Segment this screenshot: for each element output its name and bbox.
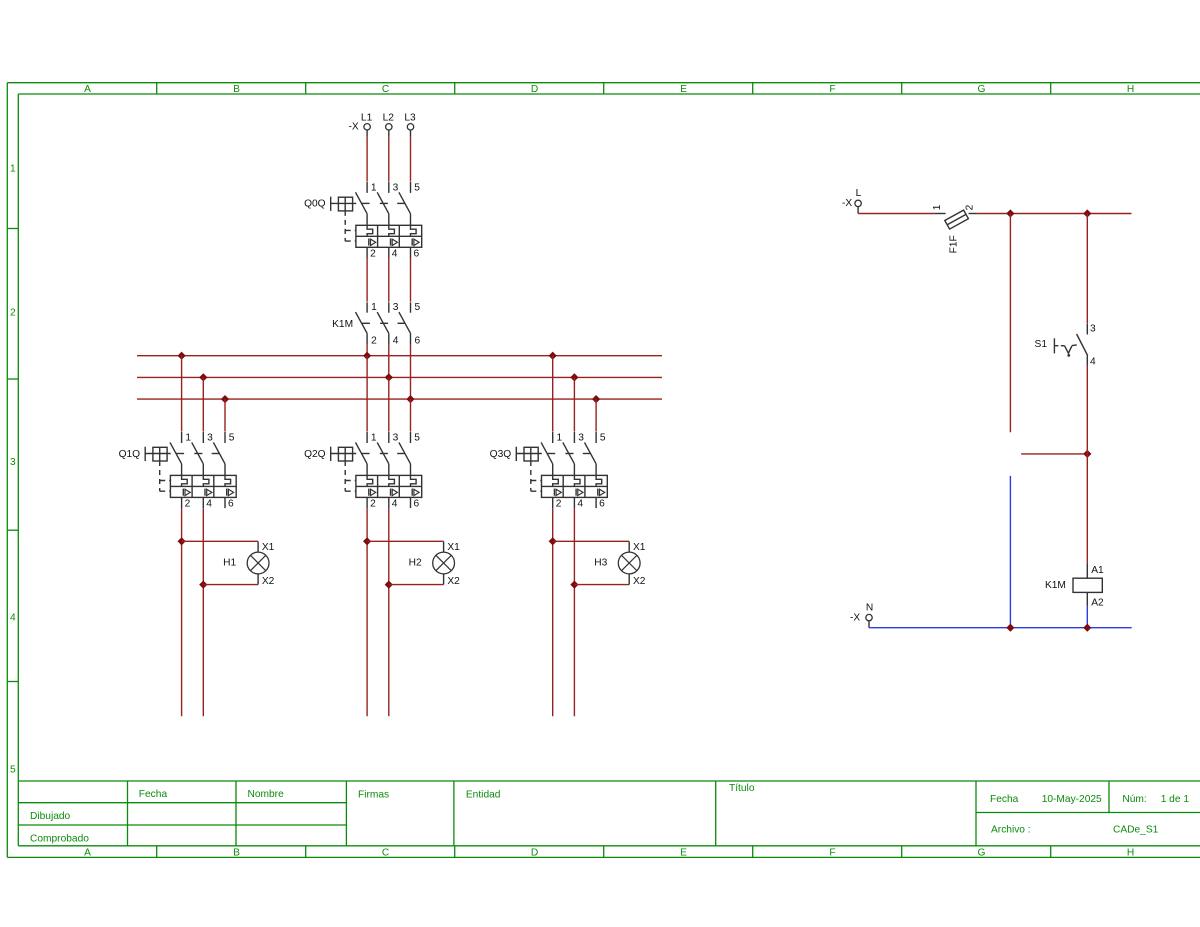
svg-text:1: 1	[371, 302, 377, 313]
svg-text:2: 2	[371, 336, 377, 347]
svg-text:4: 4	[392, 249, 398, 260]
switch S1	[1035, 324, 1096, 368]
svg-text:H: H	[1127, 84, 1134, 95]
svg-text:X2: X2	[633, 576, 646, 587]
wire L3 to Q0Q	[410, 137, 412, 182]
wire bus L2 to Q3Q pole2	[573, 377, 575, 431]
svg-text:3: 3	[393, 433, 399, 444]
wire Q1Q pole2 down	[202, 508, 204, 716]
wire Q2Q pole2 down	[388, 508, 390, 716]
bus L3	[137, 398, 662, 400]
junction lamp H1 return	[199, 581, 207, 589]
fuse F1F	[932, 204, 978, 253]
svg-text:4: 4	[393, 336, 399, 347]
wire Q0Q pole3 to K1M	[410, 258, 412, 302]
svg-text:-X: -X	[349, 122, 359, 133]
wire bus L1 to Q2Q pole1	[366, 356, 368, 432]
terminal -X N	[850, 603, 873, 628]
svg-text:5: 5	[600, 433, 606, 444]
zone column dividers bottom	[157, 846, 1051, 858]
wire S1 to K1M coil	[1086, 366, 1088, 564]
svg-text:Entidad: Entidad	[466, 790, 501, 801]
svg-text:Dibujado: Dibujado	[30, 811, 71, 822]
zone column letters bottom	[84, 847, 1134, 858]
junction branch 2 pole 2 on bus	[385, 373, 393, 381]
svg-text:C: C	[382, 84, 389, 95]
wire K1M pole1 to bus L1	[366, 345, 368, 356]
wire Q3Q pole1 down	[552, 508, 554, 716]
wire bus L3 to Q2Q pole3	[410, 399, 412, 431]
wire bus L1 to Q1Q pole1	[181, 356, 183, 432]
svg-text:1: 1	[557, 433, 563, 444]
svg-text:L1: L1	[361, 113, 373, 124]
wire K1M pole2 to bus L2	[388, 345, 390, 378]
terminal -X L (control)	[842, 188, 862, 213]
junction N node B	[1083, 624, 1091, 632]
svg-text:3: 3	[578, 433, 584, 444]
svg-text:1: 1	[932, 204, 943, 210]
svg-text:Nombre: Nombre	[248, 789, 285, 800]
motor circuit breaker Q0Q	[304, 182, 422, 260]
svg-text:Archivo :: Archivo :	[991, 825, 1031, 836]
svg-text:Q1Q: Q1Q	[119, 449, 141, 460]
svg-text:D: D	[531, 847, 538, 858]
svg-text:1: 1	[185, 433, 191, 444]
terminal strip -X L1 L2 L3	[349, 113, 416, 137]
svg-text:3: 3	[393, 302, 399, 313]
svg-text:5: 5	[10, 765, 16, 776]
svg-text:A1: A1	[1091, 565, 1104, 576]
svg-text:4: 4	[1090, 357, 1096, 368]
indicator lamp H2	[409, 542, 461, 587]
sheet inner border	[18, 94, 1200, 846]
svg-text:1 de 1: 1 de 1	[1161, 794, 1190, 805]
svg-text:A: A	[84, 84, 91, 95]
zone column dividers top	[157, 83, 1051, 94]
svg-text:E: E	[680, 84, 687, 95]
svg-text:2: 2	[185, 499, 191, 510]
svg-text:6: 6	[228, 499, 234, 510]
svg-text:3: 3	[1090, 324, 1096, 335]
svg-text:L: L	[856, 188, 862, 199]
svg-text:Fecha: Fecha	[990, 794, 1019, 805]
wire Q0Q pole2 to K1M	[388, 258, 390, 302]
wire branch A lower (blue)	[1009, 476, 1011, 628]
svg-text:X1: X1	[633, 542, 646, 553]
svg-text:2: 2	[370, 499, 376, 510]
svg-text:Título: Título	[729, 783, 755, 794]
svg-text:A2: A2	[1091, 597, 1104, 608]
wire bus L1 to Q3Q pole1	[552, 356, 554, 432]
zone row numbers left	[10, 164, 16, 776]
junction branch 2 pole 1 on bus	[363, 352, 371, 360]
wire from lamp H1 X2	[203, 584, 258, 586]
contactor coil K1M	[1045, 564, 1104, 609]
svg-text:1: 1	[371, 433, 377, 444]
svg-text:G: G	[978, 84, 986, 95]
wire K1M pole3 to bus L3	[410, 345, 412, 400]
svg-text:-X: -X	[842, 198, 852, 209]
svg-text:Núm:: Núm:	[1122, 794, 1146, 805]
indicator lamp H3	[594, 542, 646, 587]
junction lamp H2 feed	[363, 537, 371, 545]
zone row ticks left	[7, 229, 18, 682]
svg-text:3: 3	[10, 457, 16, 468]
svg-text:Comprobado: Comprobado	[30, 833, 89, 844]
wire fuse to control branches	[977, 213, 1131, 215]
junction lamp H3 return	[570, 581, 578, 589]
svg-text:H2: H2	[409, 558, 422, 569]
svg-text:Q3Q: Q3Q	[490, 449, 512, 460]
wire bus L3 to Q3Q pole3	[595, 399, 597, 431]
bus L1	[137, 355, 662, 357]
svg-text:H3: H3	[594, 558, 607, 569]
bus N (blue)	[869, 627, 1132, 629]
contactor main contacts K1M	[332, 302, 420, 346]
svg-text:4: 4	[10, 613, 16, 624]
motor circuit breaker Q3Q	[490, 432, 608, 510]
svg-text:2: 2	[965, 204, 976, 210]
svg-text:X2: X2	[447, 576, 460, 587]
svg-text:H1: H1	[223, 558, 236, 569]
wire L to fuse F1F	[858, 213, 935, 215]
svg-text:5: 5	[414, 183, 420, 194]
junction branch 3 pole 3 on bus	[592, 395, 600, 403]
junction lamp H2 return	[385, 581, 393, 589]
svg-text:6: 6	[414, 499, 420, 510]
svg-text:6: 6	[599, 499, 605, 510]
svg-text:1: 1	[371, 183, 377, 194]
wire K1M coil to N bus	[1086, 606, 1088, 628]
svg-text:2: 2	[556, 499, 562, 510]
wire from lamp H3 X2	[574, 584, 629, 586]
junction lamp H3 feed	[549, 537, 557, 545]
wire bus L2 to Q2Q pole2	[388, 377, 390, 431]
junction N node A	[1006, 624, 1014, 632]
svg-text:2: 2	[370, 249, 376, 260]
junction branch 1 pole 1 on bus	[178, 352, 186, 360]
svg-text:G: G	[978, 847, 986, 858]
svg-text:X2: X2	[262, 576, 275, 587]
svg-text:D: D	[531, 84, 538, 95]
svg-text:B: B	[233, 847, 240, 858]
wire open contact link	[1021, 453, 1087, 455]
wire branch A down (open contact upper)	[1009, 214, 1011, 433]
svg-text:B: B	[233, 84, 240, 95]
svg-text:6: 6	[415, 336, 421, 347]
wire Q1Q pole1 down	[181, 508, 183, 716]
motor circuit breaker Q1Q	[119, 432, 237, 510]
junction branch 1 pole 3 on bus	[221, 395, 229, 403]
wire L1 to Q0Q	[366, 137, 368, 182]
svg-text:L3: L3	[404, 113, 416, 124]
wire to lamp H1 X1	[182, 540, 259, 542]
svg-text:Q0Q: Q0Q	[304, 199, 326, 210]
wire to lamp H2 X1	[367, 540, 444, 542]
svg-text:CADe_S1: CADe_S1	[1113, 825, 1159, 836]
svg-text:4: 4	[392, 499, 398, 510]
svg-text:Q2Q: Q2Q	[304, 449, 326, 460]
junction on S1 branch	[1083, 450, 1091, 458]
svg-text:Fecha: Fecha	[139, 789, 168, 800]
svg-text:3: 3	[207, 433, 213, 444]
motor circuit breaker Q2Q	[304, 432, 422, 510]
svg-text:6: 6	[414, 249, 420, 260]
svg-text:E: E	[680, 847, 687, 858]
zone column letters top	[84, 84, 1134, 95]
svg-text:L2: L2	[383, 113, 395, 124]
svg-text:Firmas: Firmas	[358, 790, 389, 801]
svg-text:5: 5	[415, 302, 421, 313]
wire Q0Q pole1 to K1M	[366, 258, 368, 302]
wire from lamp H2 X2	[389, 584, 444, 586]
svg-text:2: 2	[10, 308, 16, 319]
svg-text:N: N	[866, 603, 873, 614]
junction top node B	[1083, 209, 1091, 217]
svg-text:X1: X1	[447, 542, 460, 553]
svg-text:F: F	[829, 84, 835, 95]
svg-text:A: A	[84, 847, 91, 858]
junction branch 3 pole 2 on bus	[570, 373, 578, 381]
svg-text:5: 5	[229, 433, 235, 444]
junction top node A	[1006, 209, 1014, 217]
svg-text:4: 4	[577, 499, 583, 510]
wire L2 to Q0Q	[388, 137, 390, 182]
svg-text:F: F	[829, 847, 835, 858]
svg-text:S1: S1	[1035, 339, 1048, 350]
indicator lamp H1	[223, 542, 275, 587]
wire bus L3 to Q1Q pole3	[224, 399, 226, 431]
title block grid	[18, 781, 1200, 846]
wire top to S1	[1086, 214, 1088, 324]
bus L2	[137, 376, 662, 378]
svg-text:C: C	[382, 847, 389, 858]
svg-text:H: H	[1127, 847, 1134, 858]
svg-text:4: 4	[206, 499, 212, 510]
junction branch 2 pole 3 on bus	[406, 395, 414, 403]
svg-text:10-May-2025: 10-May-2025	[1042, 794, 1102, 805]
junction branch 1 pole 2 on bus	[199, 373, 207, 381]
svg-text:1: 1	[10, 164, 16, 175]
svg-text:K1M: K1M	[1045, 580, 1066, 591]
wire bus L2 to Q1Q pole2	[202, 377, 204, 431]
svg-text:3: 3	[393, 183, 399, 194]
svg-text:-X: -X	[850, 613, 860, 624]
junction branch 3 pole 1 on bus	[549, 352, 557, 360]
wire Q2Q pole1 down	[366, 508, 368, 716]
wire Q3Q pole2 down	[573, 508, 575, 716]
svg-text:K1M: K1M	[332, 319, 353, 330]
svg-text:X1: X1	[262, 542, 275, 553]
junction lamp H1 feed	[178, 537, 186, 545]
wire to lamp H3 X1	[553, 540, 630, 542]
svg-text:F1F: F1F	[949, 235, 960, 253]
svg-text:5: 5	[414, 433, 420, 444]
